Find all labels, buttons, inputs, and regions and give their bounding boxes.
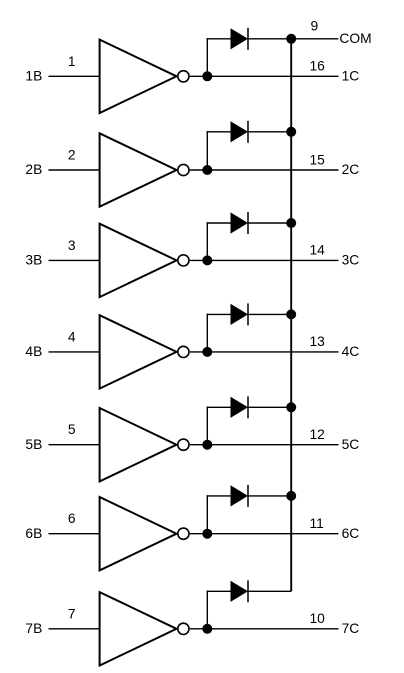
svg-text:3C: 3C [342,253,360,268]
svg-text:6: 6 [68,511,76,526]
svg-text:7B: 7B [25,621,42,636]
svg-text:3B: 3B [25,253,42,268]
svg-text:7: 7 [68,606,76,621]
svg-text:13: 13 [310,334,326,349]
svg-text:9: 9 [311,18,319,33]
svg-text:7C: 7C [342,621,360,636]
svg-text:11: 11 [310,516,324,531]
svg-text:1C: 1C [342,68,360,83]
svg-text:COM: COM [339,31,371,46]
svg-text:4B: 4B [25,344,42,359]
svg-text:1B: 1B [25,68,42,83]
svg-text:5B: 5B [25,437,42,452]
svg-text:4: 4 [68,329,76,344]
svg-text:4C: 4C [342,344,360,359]
svg-text:5C: 5C [342,437,360,452]
svg-text:10: 10 [310,611,326,626]
svg-text:2B: 2B [25,162,42,177]
svg-text:2C: 2C [342,162,360,177]
svg-text:14: 14 [310,243,326,258]
svg-text:3: 3 [68,238,76,253]
svg-text:1: 1 [68,54,76,69]
svg-text:15: 15 [310,152,326,167]
svg-text:5: 5 [68,422,76,437]
svg-text:6B: 6B [25,526,42,541]
svg-text:6C: 6C [342,526,360,541]
svg-text:2: 2 [68,148,76,163]
svg-text:16: 16 [310,59,326,74]
svg-text:12: 12 [310,427,325,442]
